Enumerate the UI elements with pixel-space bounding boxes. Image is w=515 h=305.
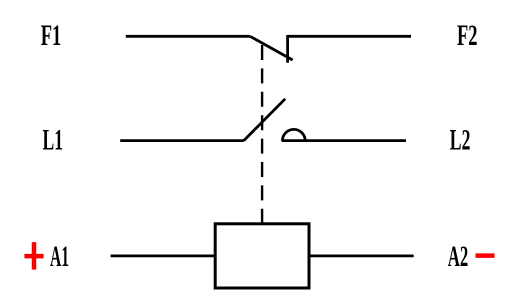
wire A2 right [309, 254, 414, 257]
NC contact moving blade [250, 36, 293, 60]
contact operating-head semicircle [282, 129, 305, 140]
wire A1 left [111, 254, 215, 257]
wire F1 left [126, 35, 250, 38]
svg-text:L1: L1 [43, 123, 64, 156]
wire L1 left [120, 139, 244, 142]
polarity minus sign [476, 253, 495, 258]
mechanical linkage dashed line [261, 45, 263, 224]
coil K1 [215, 224, 309, 288]
wire F2 right [288, 35, 411, 38]
polarity plus sign [24, 242, 43, 270]
svg-text:F2: F2 [457, 19, 478, 52]
wire L2 right [282, 139, 406, 142]
svg-text:F1: F1 [41, 19, 62, 52]
svg-text:L2: L2 [450, 123, 471, 156]
NO contact moving blade [244, 99, 285, 141]
svg-text:A2: A2 [448, 240, 469, 273]
svg-text:A1: A1 [50, 240, 69, 273]
NC contact fixed bar [286, 35, 289, 63]
